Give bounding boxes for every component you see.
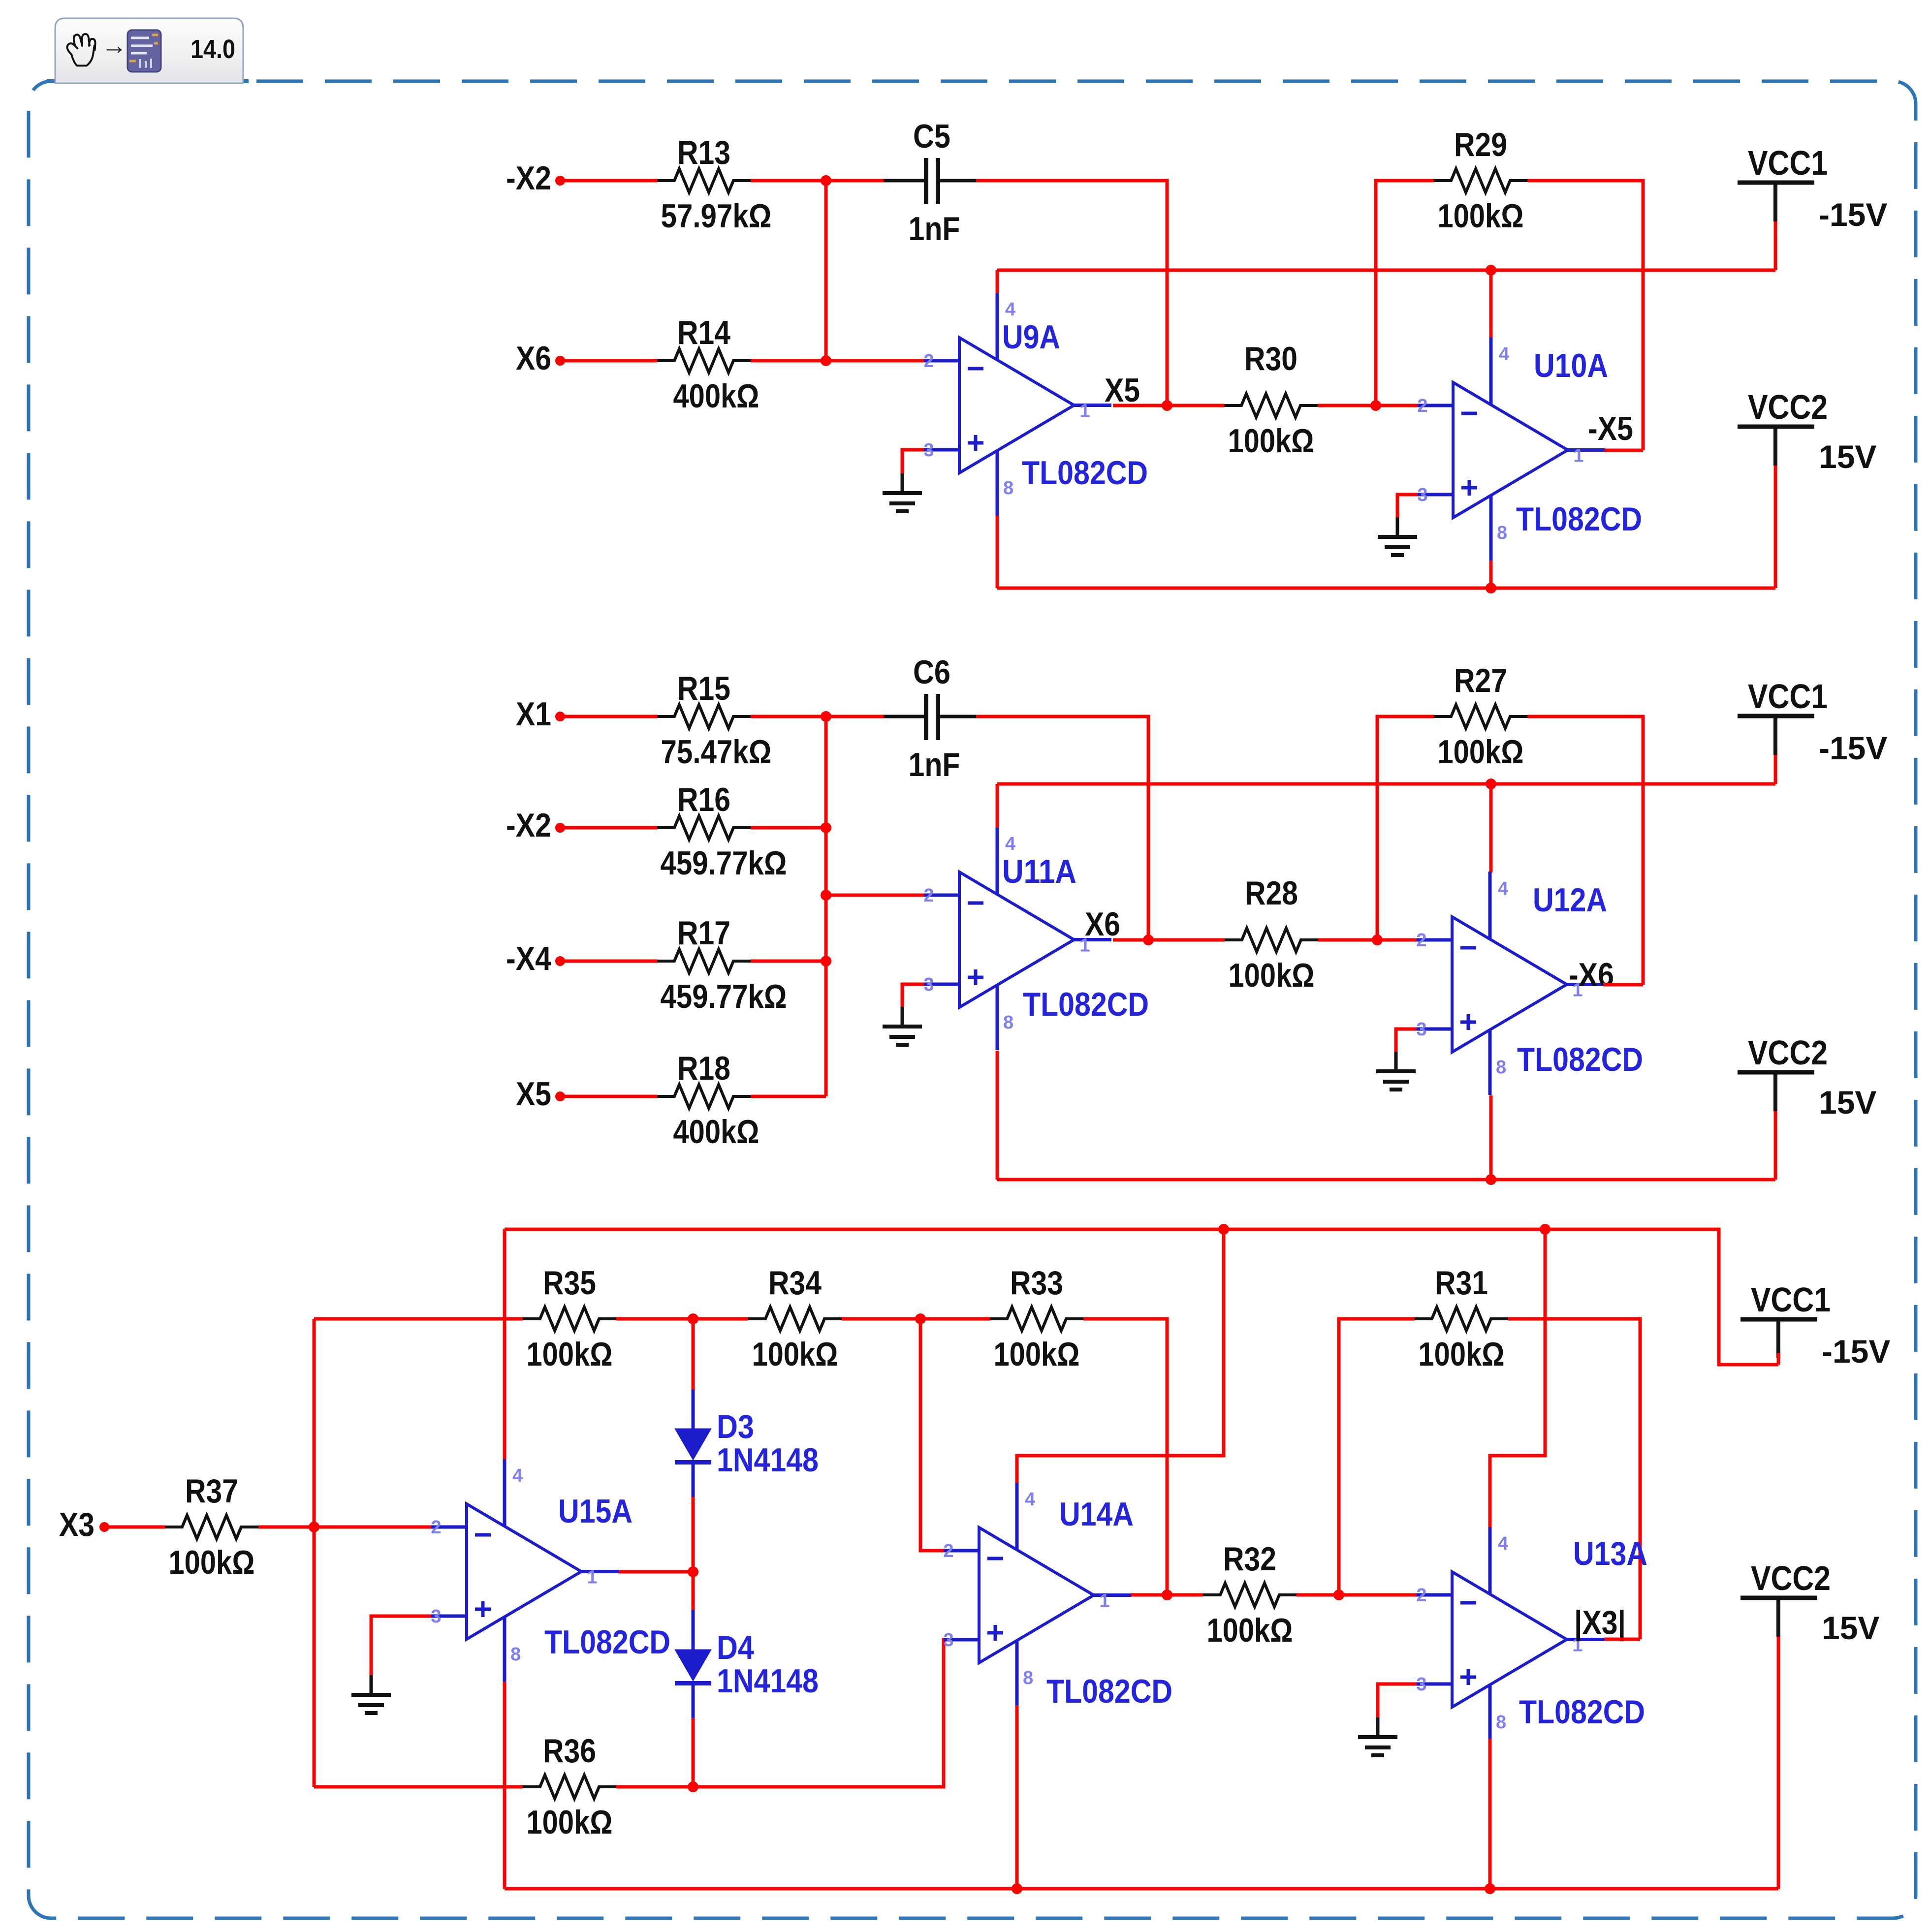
junction VCC2 rail / U12A pin 8 xyxy=(1486,1174,1496,1185)
svg-text:15V: 15V xyxy=(1819,438,1876,475)
wire -X4 to R17 xyxy=(560,960,657,963)
ground (U13A non-inverting input) xyxy=(1358,1717,1397,1755)
svg-text:100kΩ: 100kΩ xyxy=(169,1544,255,1581)
svg-text:1nF: 1nF xyxy=(909,746,960,783)
svg-text:100kΩ: 100kΩ xyxy=(1229,957,1315,994)
svg-text:→: → xyxy=(101,31,127,60)
svg-text:R17: R17 xyxy=(677,914,730,952)
svg-text:2: 2 xyxy=(431,1517,441,1538)
svg-text:X1: X1 xyxy=(516,695,551,733)
svg-text:-X2: -X2 xyxy=(506,159,551,197)
op-amp U12A TL082CD xyxy=(1416,872,1643,1095)
svg-text:R33: R33 xyxy=(1010,1264,1063,1302)
wire R27 right leg xyxy=(1527,717,1643,985)
node -X5 (U10A output) xyxy=(1588,410,1633,447)
wire R31 right leg xyxy=(1508,1319,1640,1639)
svg-text:8: 8 xyxy=(1003,478,1013,499)
svg-text:2: 2 xyxy=(1416,930,1426,951)
node -X2 (input, section 2) xyxy=(506,807,565,844)
wire U11A pin 4 to VCC1 rail xyxy=(996,784,999,828)
resistor R15 75.47k xyxy=(657,670,772,771)
svg-text:VCC2: VCC2 xyxy=(1748,1033,1828,1072)
svg-text:-15V: -15V xyxy=(1819,730,1887,766)
wire junction to U9A pin 2 xyxy=(826,359,925,363)
wire U10A pin 8 drop xyxy=(1489,561,1493,588)
node -X2 (input, section 1) xyxy=(506,159,565,197)
wire junction vertical (inverting node U9A) xyxy=(824,181,828,361)
wire U15A output to D3/D4 node xyxy=(619,1570,693,1574)
wire R32 to U13A pin 2 xyxy=(1297,1593,1418,1597)
svg-text:100kΩ: 100kΩ xyxy=(527,1804,613,1841)
resistor R32 100k xyxy=(1203,1540,1297,1649)
junction rail / U14A pin 4 branch xyxy=(1218,1224,1229,1235)
wire U15A pin 4 drop xyxy=(503,1229,506,1459)
resistor R35 100k (feedback) xyxy=(523,1264,616,1373)
svg-text:8: 8 xyxy=(510,1644,521,1665)
wire R33 to U14A output node xyxy=(1083,1319,1167,1595)
junction R35/R34/D3 xyxy=(688,1313,698,1324)
svg-text:1: 1 xyxy=(587,1567,597,1588)
svg-text:TL082CD: TL082CD xyxy=(1517,1041,1643,1078)
svg-text:U11A: U11A xyxy=(1002,853,1076,890)
wire to R35 xyxy=(314,1317,523,1321)
resistor R31 100k (feedback) xyxy=(1415,1264,1508,1373)
svg-text:VCC2: VCC2 xyxy=(1751,1559,1831,1597)
op-amp U10A TL082CD xyxy=(1417,337,1642,561)
node -X4 (input, section 2) xyxy=(506,940,565,977)
svg-text:R29: R29 xyxy=(1454,126,1507,163)
wire D3 anode xyxy=(692,1319,695,1390)
svg-text:VCC1: VCC1 xyxy=(1751,1280,1831,1319)
svg-text:100kΩ: 100kΩ xyxy=(752,1336,838,1373)
wire U12A pin 3 to ground xyxy=(1396,1029,1417,1052)
wire VCC2 rail section 2 xyxy=(997,1178,1775,1182)
wire U11A pin 8 to VCC2 rail xyxy=(996,1051,999,1180)
svg-text:VCC1: VCC1 xyxy=(1748,144,1828,182)
svg-text:X6: X6 xyxy=(1085,905,1120,943)
svg-text:VCC2: VCC2 xyxy=(1748,388,1828,426)
op-amp U15A TL082CD xyxy=(431,1459,670,1682)
svg-text:R31: R31 xyxy=(1435,1264,1488,1302)
svg-text:100kΩ: 100kΩ xyxy=(1438,197,1524,235)
svg-text:57.97kΩ: 57.97kΩ xyxy=(661,197,772,235)
resistor R29 100k (feedback) xyxy=(1434,126,1527,235)
svg-text:X5: X5 xyxy=(1105,372,1140,409)
ground (U11A non-inverting input) xyxy=(883,1007,922,1045)
junction VCC1 rail / U12A pin 4 xyxy=(1486,779,1496,789)
toolbar hand cursor icon xyxy=(67,34,95,65)
svg-text:-X4: -X4 xyxy=(506,940,551,977)
wire R36 to D4 node xyxy=(616,1785,693,1789)
op-amp U9A TL082CD xyxy=(923,292,1148,516)
svg-text:R35: R35 xyxy=(543,1264,596,1302)
wire R15 to junction xyxy=(751,715,826,718)
resistor R16 459.77k xyxy=(657,781,787,882)
wire junction to U15A pin 2 xyxy=(314,1526,433,1529)
svg-text:1: 1 xyxy=(1573,446,1583,467)
svg-text:X5: X5 xyxy=(516,1075,551,1113)
svg-text:100kΩ: 100kΩ xyxy=(1228,422,1314,460)
svg-text:U9A: U9A xyxy=(1002,318,1060,356)
svg-text:3: 3 xyxy=(923,974,934,995)
svg-text:4: 4 xyxy=(1005,834,1015,854)
wire D4 cathode to R36 node xyxy=(692,1718,695,1787)
svg-text:15V: 15V xyxy=(1822,1610,1879,1646)
resistor R28 100k xyxy=(1225,874,1318,994)
svg-text:R16: R16 xyxy=(677,781,730,818)
junction VCC2 rail / U10A pin 8 xyxy=(1486,583,1496,593)
svg-text:100kΩ: 100kΩ xyxy=(994,1336,1080,1373)
wire U10A pin 4 drop xyxy=(1489,270,1493,338)
wire R13 to junction xyxy=(751,179,826,183)
svg-text:-15V: -15V xyxy=(1819,196,1887,233)
svg-text:3: 3 xyxy=(943,1630,953,1651)
svg-text:D3: D3 xyxy=(717,1408,754,1445)
svg-text:R37: R37 xyxy=(185,1472,238,1510)
wire U9A pin 8 to VCC2 rail xyxy=(996,516,999,588)
svg-text:C6: C6 xyxy=(913,654,950,691)
junction rail / U13A pin 4 branch xyxy=(1540,1224,1550,1235)
power VCC2 15V (section 3) xyxy=(1740,1559,1879,1889)
wire U15A pin 3 to ground xyxy=(371,1616,431,1675)
svg-text:2: 2 xyxy=(1417,396,1427,416)
diode D3 1N4148 xyxy=(675,1389,819,1497)
svg-text:-X6: -X6 xyxy=(1569,956,1614,994)
wire R33 left xyxy=(920,1317,990,1321)
junction R31 left / U13A inverting input xyxy=(1333,1589,1344,1600)
junction R17/summing node xyxy=(821,956,831,966)
wire U13A output xyxy=(1604,1638,1640,1641)
svg-text:459.77kΩ: 459.77kΩ xyxy=(661,978,787,1015)
svg-text:3: 3 xyxy=(923,440,934,461)
node X6 (U11A output) xyxy=(1085,905,1154,945)
svg-text:1N4148: 1N4148 xyxy=(717,1441,819,1479)
svg-text:X3: X3 xyxy=(59,1506,95,1543)
wire U9A output to R30 xyxy=(1113,404,1224,407)
svg-text:100kΩ: 100kΩ xyxy=(527,1336,613,1373)
wire U12A pin 4 drop xyxy=(1489,784,1493,873)
svg-text:TL082CD: TL082CD xyxy=(1516,500,1642,538)
wire R30 to U10A pin 2 xyxy=(1318,404,1418,407)
power VCC1 -15V (section 1) xyxy=(1738,144,1887,270)
node X3 (input) xyxy=(59,1506,109,1543)
node X6 (input, section 1) xyxy=(516,340,565,377)
junction at U9A inverting input xyxy=(821,355,831,366)
wire U11A pin 3 to ground xyxy=(902,984,924,1007)
wire VCC2 rail section 1 xyxy=(997,587,1775,590)
svg-text:4: 4 xyxy=(1499,344,1509,365)
wire R18 to junction xyxy=(751,1095,826,1098)
wire U13A pin 4 branch xyxy=(1490,1229,1545,1527)
svg-text:R18: R18 xyxy=(677,1050,730,1087)
junction R34/R33/U14A pin2 xyxy=(915,1313,926,1324)
wire D4 node to U14A pin 3 xyxy=(693,1640,978,1787)
svg-text:VCC1: VCC1 xyxy=(1748,677,1828,716)
ground (U9A non-inverting input) xyxy=(883,473,922,511)
svg-text:1N4148: 1N4148 xyxy=(717,1662,819,1700)
power VCC2 15V (section 1) xyxy=(1738,388,1876,588)
junction U14A output node xyxy=(1162,1589,1172,1600)
wire VCC1 rail section 2 xyxy=(997,782,1775,786)
wire C5 to X5 node (feedback) xyxy=(976,181,1167,405)
svg-text:3: 3 xyxy=(431,1606,441,1627)
svg-text:4: 4 xyxy=(1025,1489,1035,1510)
svg-text:-15V: -15V xyxy=(1822,1333,1890,1370)
wire R34 left xyxy=(693,1317,748,1321)
svg-text:2: 2 xyxy=(1416,1585,1426,1606)
wire R29 left leg xyxy=(1376,181,1434,405)
wire X5 to R18 xyxy=(560,1095,657,1098)
wire R17 to junction xyxy=(751,960,826,963)
svg-text:3: 3 xyxy=(1417,485,1427,505)
wire U11A output to R28 xyxy=(1113,938,1225,942)
svg-text:1: 1 xyxy=(1079,401,1090,422)
power VCC1 -15V (section 3) xyxy=(1740,1280,1890,1370)
wire U14A pin 8 drop xyxy=(1015,1705,1019,1889)
wire U13A pin 3 to ground xyxy=(1378,1684,1417,1717)
resistor R36 100k xyxy=(523,1732,616,1841)
node |X3| (U13A output) xyxy=(1574,1604,1626,1642)
svg-text:2: 2 xyxy=(943,1541,953,1561)
wire U9A pin 3 to ground xyxy=(902,450,924,473)
wire VCC1 rail section 3 xyxy=(505,1229,1778,1365)
resistor R14 400k xyxy=(657,314,759,415)
svg-text:-X5: -X5 xyxy=(1588,410,1633,447)
node -X6 (U12A output) xyxy=(1569,956,1614,994)
svg-text:R13: R13 xyxy=(677,134,730,171)
svg-text:U10A: U10A xyxy=(1534,347,1608,384)
svg-text:8: 8 xyxy=(1023,1668,1033,1688)
wire X1 to R15 xyxy=(560,715,657,718)
svg-text:U15A: U15A xyxy=(558,1493,633,1530)
wire junction to C5 xyxy=(826,179,884,183)
svg-text:1nF: 1nF xyxy=(909,210,960,248)
wire -X2 to R13 xyxy=(560,179,657,183)
wire R31 left leg xyxy=(1339,1319,1415,1595)
wire U14A pin 4 branch xyxy=(1017,1229,1224,1483)
power VCC1 -15V (section 2) xyxy=(1738,677,1887,784)
svg-text:C5: C5 xyxy=(913,118,950,155)
resistor R17 459.77k xyxy=(657,914,787,1015)
wire U15A pin 8 drop xyxy=(503,1682,506,1889)
resistor R34 100k xyxy=(748,1264,842,1373)
svg-text:D4: D4 xyxy=(717,1629,754,1666)
wire -X2 to R16 xyxy=(560,826,657,830)
wire inverting node vertical xyxy=(313,1319,316,1787)
wire U10A output xyxy=(1604,449,1643,452)
window tab xyxy=(55,18,243,83)
svg-text:TL082CD: TL082CD xyxy=(1023,986,1149,1023)
svg-text:U12A: U12A xyxy=(1533,881,1607,919)
wire U13A pin 8 drop xyxy=(1488,1739,1492,1889)
svg-text:X6: X6 xyxy=(516,340,551,377)
wire U14A pin 2 drop xyxy=(920,1319,978,1551)
capacitor C6 1nF xyxy=(884,654,980,783)
ground (U15A non-inverting input) xyxy=(351,1675,391,1713)
wire R36 left xyxy=(314,1785,523,1789)
svg-text:R28: R28 xyxy=(1245,874,1298,912)
junction R16/summing node xyxy=(821,822,831,833)
svg-text:R27: R27 xyxy=(1454,662,1507,699)
junction R36/D4/U14A pin3 xyxy=(688,1781,698,1792)
node X5 (input, section 2) xyxy=(516,1075,565,1113)
resistor R37 100k xyxy=(165,1472,258,1581)
svg-text:8: 8 xyxy=(1496,1712,1506,1733)
svg-text:R30: R30 xyxy=(1244,340,1297,377)
wire U9A pin 4 to VCC1 rail xyxy=(996,270,999,293)
wire U12A pin 8 drop xyxy=(1489,1095,1493,1180)
wire R14 to junction xyxy=(751,359,826,363)
junction U15A inverting node xyxy=(309,1522,319,1532)
svg-text:4: 4 xyxy=(1005,299,1015,320)
wire VCC2 rail section 3 (bottom) xyxy=(505,1887,1778,1891)
junction R27 left / U12A inverting input xyxy=(1372,935,1383,945)
junction U15A output / diodes xyxy=(688,1566,698,1577)
op-amp U13A TL082CD xyxy=(1416,1527,1647,1750)
svg-text:R34: R34 xyxy=(768,1264,822,1302)
svg-text:U13A: U13A xyxy=(1573,1535,1647,1572)
svg-text:TL082CD: TL082CD xyxy=(1046,1673,1172,1710)
wire X6 to R14 xyxy=(560,359,657,363)
svg-text:8: 8 xyxy=(1496,1057,1506,1078)
wire U12A output xyxy=(1603,983,1643,987)
wire R37 to junction xyxy=(258,1526,314,1529)
wire U10A pin 3 to ground xyxy=(1397,495,1418,517)
svg-text:3: 3 xyxy=(1416,1019,1426,1040)
svg-text:14.0: 14.0 xyxy=(190,34,235,64)
junction VCC1 rail / U10A pin 4 xyxy=(1486,265,1496,276)
wire R29 right leg xyxy=(1527,181,1643,450)
wire R16 to junction xyxy=(751,826,826,830)
junction R15/C6 xyxy=(821,711,831,722)
svg-text:TL082CD: TL082CD xyxy=(544,1623,670,1661)
svg-text:R14: R14 xyxy=(677,314,730,351)
toolbar text 14.0 xyxy=(190,34,235,64)
svg-text:100kΩ: 100kΩ xyxy=(1419,1336,1505,1373)
resistor R30 100k xyxy=(1224,340,1318,460)
svg-text:400kΩ: 400kΩ xyxy=(673,1113,759,1151)
svg-text:4: 4 xyxy=(1498,1533,1508,1554)
wire D4 anode xyxy=(692,1572,695,1611)
svg-text:8: 8 xyxy=(1003,1012,1013,1033)
junction U11A inverting input xyxy=(821,890,831,901)
wire U14A output to R32 xyxy=(1131,1593,1203,1597)
op-amp U11A TL082CD xyxy=(923,827,1149,1050)
svg-text:400kΩ: 400kΩ xyxy=(673,377,759,415)
junction R29 left / U10A inverting input xyxy=(1370,400,1381,411)
op-amp U14A TL082CD xyxy=(943,1482,1172,1710)
junction at R13/C5 xyxy=(821,175,831,186)
resistor R27 100k (feedback) xyxy=(1434,662,1527,771)
wire junction to U11A pin 2 xyxy=(826,894,925,897)
svg-text:|X3|: |X3| xyxy=(1574,1604,1626,1642)
wire C6 to X6 node (feedback) xyxy=(976,717,1148,940)
wire R34 to R33 junction xyxy=(842,1317,920,1321)
resistor R33 100k xyxy=(990,1264,1083,1373)
wire junction to C6 xyxy=(826,715,884,718)
resistor R18 400k xyxy=(657,1050,759,1151)
wire R28 to U12A pin 2 xyxy=(1318,938,1418,942)
svg-text:1: 1 xyxy=(1099,1591,1109,1612)
svg-text:TL082CD: TL082CD xyxy=(1022,454,1148,492)
resistor R13 57.97k xyxy=(657,134,772,235)
svg-text:U14A: U14A xyxy=(1059,1496,1134,1533)
wire D3 cathode to output node xyxy=(692,1497,695,1572)
svg-text:R32: R32 xyxy=(1223,1540,1276,1578)
power VCC2 15V (section 2) xyxy=(1738,1033,1876,1180)
wire summing vertical (U11A inverting node) xyxy=(824,717,828,1096)
node X5 (U9A output) xyxy=(1105,372,1172,411)
wire X3 to R37 xyxy=(104,1526,165,1529)
wire VCC1 rail section 1 xyxy=(997,269,1775,272)
svg-text:459.77kΩ: 459.77kΩ xyxy=(661,844,787,882)
svg-text:TL082CD: TL082CD xyxy=(1519,1693,1645,1731)
wire R35 to D3 node xyxy=(616,1317,693,1321)
svg-text:3: 3 xyxy=(1416,1674,1426,1695)
junction bottom rail / U13A pin 8 xyxy=(1485,1883,1495,1894)
svg-text:75.47kΩ: 75.47kΩ xyxy=(661,733,772,771)
svg-text:R36: R36 xyxy=(543,1732,596,1770)
diode D4 1N4148 xyxy=(675,1610,819,1718)
svg-text:R15: R15 xyxy=(677,670,730,707)
svg-text:-X2: -X2 xyxy=(506,807,551,844)
wire R27 left leg xyxy=(1377,717,1434,940)
capacitor C5 1nF xyxy=(884,118,980,248)
toolbar circuit icon xyxy=(127,30,161,72)
svg-text:2: 2 xyxy=(923,351,934,372)
junction bottom rail / U14A pin 8 xyxy=(1012,1883,1022,1894)
svg-text:4: 4 xyxy=(512,1465,523,1486)
svg-text:100kΩ: 100kΩ xyxy=(1207,1612,1293,1649)
svg-text:100kΩ: 100kΩ xyxy=(1438,733,1524,771)
svg-text:4: 4 xyxy=(1498,878,1508,899)
node X1 (input, section 2) xyxy=(516,695,565,733)
ground (U10A non-inverting input) xyxy=(1378,517,1417,555)
svg-text:2: 2 xyxy=(923,885,934,906)
toolbar arrow xyxy=(101,31,127,60)
svg-text:8: 8 xyxy=(1497,523,1507,543)
ground (U12A non-inverting input) xyxy=(1376,1052,1416,1090)
svg-text:15V: 15V xyxy=(1819,1084,1876,1121)
